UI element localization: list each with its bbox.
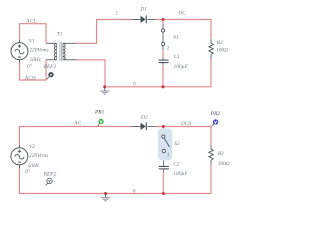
svg-text:PR1: PR1: [94, 110, 105, 116]
svg-text:REF2: REF2: [43, 171, 57, 177]
svg-text:1: 1: [167, 152, 170, 158]
svg-text:ACL: ACL: [26, 18, 37, 24]
svg-text:R2: R2: [216, 40, 223, 46]
svg-text:D1: D1: [139, 7, 147, 13]
svg-text:S2: S2: [174, 141, 180, 147]
svg-text:0: 0: [133, 82, 136, 88]
svg-text:V1: V1: [29, 38, 35, 44]
svg-text:AC: AC: [74, 120, 82, 126]
svg-text:C1: C1: [174, 54, 181, 60]
svg-text:220Vrms: 220Vrms: [29, 153, 48, 159]
svg-text:DC: DC: [178, 10, 186, 16]
svg-text:2: 2: [167, 46, 170, 52]
svg-text:100Ω: 100Ω: [218, 161, 230, 167]
svg-text:100µF: 100µF: [174, 64, 189, 70]
svg-text:REF1: REF1: [43, 64, 57, 70]
svg-text:100Ω: 100Ω: [216, 48, 228, 54]
svg-text:V2: V2: [29, 144, 35, 150]
svg-text:R3: R3: [217, 151, 224, 157]
svg-text:0°: 0°: [27, 63, 33, 70]
svg-text:T1: T1: [57, 31, 63, 37]
svg-text:2: 2: [115, 10, 118, 16]
svg-text:50Hz: 50Hz: [29, 57, 41, 63]
svg-text:C2: C2: [173, 162, 180, 168]
svg-text:D2: D2: [140, 115, 148, 121]
svg-text:PR2: PR2: [210, 111, 221, 117]
svg-text:0: 0: [133, 188, 136, 194]
svg-text:100µF: 100µF: [173, 171, 188, 177]
svg-text:ACN: ACN: [25, 75, 36, 81]
svg-text:DC0: DC0: [181, 121, 191, 127]
svg-text:220Vrms: 220Vrms: [29, 47, 48, 53]
svg-text:0°: 0°: [25, 168, 31, 175]
svg-text:S1: S1: [173, 34, 179, 40]
